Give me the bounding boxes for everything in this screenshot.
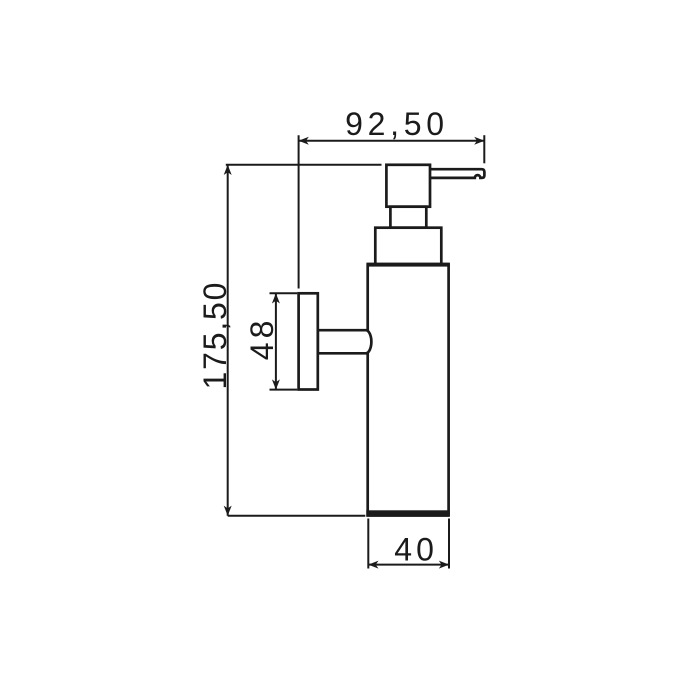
spout (430, 169, 484, 178)
dim 92,50 left extension line (298, 135, 300, 288)
arrow 48 top (272, 293, 280, 303)
base bar (366, 510, 450, 517)
neck (390, 207, 426, 228)
dim 48 bottom extension line (270, 389, 298, 391)
dim 92,50 dimension line (299, 140, 485, 142)
wall plate (299, 293, 318, 389)
arrow 48 bottom (272, 379, 280, 389)
dim 175,50 dimension line (227, 165, 229, 516)
body cylinder (368, 265, 449, 515)
svg-text:40: 40 (394, 531, 438, 567)
shoulder bar (367, 263, 450, 267)
arrow 175,50 bottom (224, 506, 232, 516)
svg-text:92,50: 92,50 (345, 106, 449, 142)
dim 92,50 right extension line (483, 135, 485, 163)
dim 175,50 bottom extension line (228, 515, 366, 517)
arrow 175,50 top (224, 165, 232, 175)
svg-text:48: 48 (244, 317, 280, 361)
dim 40 left extension line (367, 519, 369, 569)
cap (375, 228, 441, 265)
arrow 40 left (368, 561, 378, 569)
arrow 92,50 left (299, 137, 309, 145)
dim 48 top extension line (270, 292, 298, 294)
dim 40 dimension line (368, 564, 449, 566)
arrow 92,50 right (474, 137, 484, 145)
dim 48 dimension line (275, 293, 277, 389)
mounting arm (318, 330, 372, 353)
svg-text:175,50: 175,50 (197, 281, 233, 390)
dim 40 right extension line (448, 519, 450, 569)
pump head (386, 165, 430, 207)
dim 175,50 top extension line (226, 164, 382, 166)
arrow 40 right (439, 561, 449, 569)
